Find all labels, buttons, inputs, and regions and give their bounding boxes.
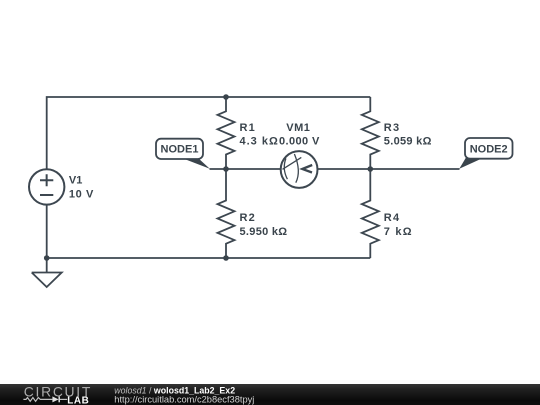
svg-text:http://circuitlab.com/c2b8ecf3: http://circuitlab.com/c2b8ecf38tpyj [114,395,254,405]
svg-text:4.3 kΩ: 4.3 kΩ [240,136,279,148]
svg-text:R1: R1 [240,122,256,134]
svg-text:R2: R2 [240,212,256,224]
svg-text:7 kΩ: 7 kΩ [384,226,413,238]
svg-text:NODE1: NODE1 [161,144,199,156]
node junction dot [223,94,229,100]
logo diode symbol [52,396,58,402]
node junction dot [44,255,50,261]
footer bar [0,384,540,405]
svg-text:0.000 V: 0.000 V [279,136,320,148]
resistor R2 [218,169,235,258]
svg-text:R4: R4 [384,212,400,224]
svg-text:LAB: LAB [67,396,89,405]
wire top rail and left vertical [47,97,371,169]
voltmeter VM1 [281,151,318,188]
node NODE1 flag [156,139,210,169]
resistor R1 [218,97,235,169]
svg-text:5.950 kΩ: 5.950 kΩ [240,226,288,238]
voltage source V1 [29,169,64,204]
node NODE2 flag [459,138,512,169]
node junction dot [368,166,374,172]
node junction dot [223,255,229,261]
node junction dot [223,166,229,172]
ground [32,258,62,287]
resistor R4 [362,169,379,258]
svg-text:R3: R3 [384,122,400,134]
wire middle left segment [210,168,281,170]
wire middle right segment [318,168,460,170]
resistor R3 [362,97,379,169]
svg-text:NODE2: NODE2 [470,143,508,155]
wire bottom rail and left vertical [47,205,371,258]
logo resistor symbol [23,398,52,402]
svg-text:VM1: VM1 [286,122,310,134]
svg-text:5.059 kΩ: 5.059 kΩ [384,136,432,148]
svg-text:10 V: 10 V [69,188,94,200]
svg-text:V1: V1 [69,175,82,187]
